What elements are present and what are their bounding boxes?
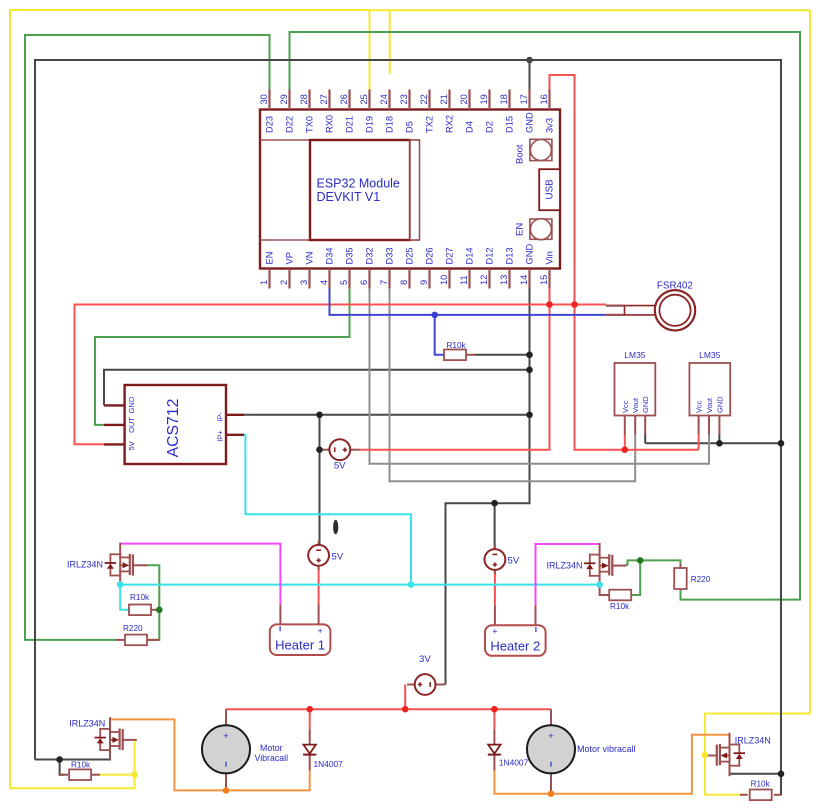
svg-text:+: + — [548, 731, 554, 742]
svg-text:19: 19 — [479, 94, 489, 104]
wire gray ACS IP- rail — [244, 414, 530, 416]
node blue R10k branch junction — [431, 312, 438, 319]
node GND top junction — [526, 57, 533, 64]
FSR402 force sensor — [606, 280, 696, 330]
wire gray LM35-1 GND drop — [644, 435, 646, 444]
ESP32 bottom pin 9 D26 — [419, 247, 434, 288]
node gray IP- junction left — [316, 412, 323, 419]
wire green D35 to ACS712 OUT — [95, 289, 350, 425]
svg-text:+: + — [492, 627, 497, 637]
svg-text:IP-: IP- — [216, 412, 225, 422]
wire red diode 1 drop — [309, 709, 311, 729]
resistor R1 R10k — [444, 341, 467, 360]
svg-text:22: 22 — [419, 94, 429, 104]
svg-text:5V: 5V — [334, 461, 346, 472]
voltage source 5V V3 heater2 — [485, 545, 506, 574]
ESP32 bottom pin 6 D32 — [359, 247, 374, 288]
wire blue branch to R10k mid — [435, 315, 445, 355]
svg-text:R10k: R10k — [610, 602, 630, 611]
motor M2 — [527, 709, 575, 791]
node red diode2 junction — [491, 706, 498, 713]
ESP32 top pin 24 D18 — [379, 90, 394, 134]
svg-text:LM35: LM35 — [699, 350, 721, 360]
svg-text:FSR402: FSR402 — [657, 280, 693, 291]
svg-text:5V: 5V — [332, 551, 344, 562]
ACS712 pin 5V — [104, 441, 136, 450]
svg-text:Vibracall: Vibracall — [255, 753, 289, 763]
svg-text:GND: GND — [641, 396, 650, 413]
svg-text:4: 4 — [319, 280, 329, 285]
svg-text:20: 20 — [459, 94, 469, 104]
ESP32 top pin 20 D4 — [459, 90, 474, 134]
svg-text:2: 2 — [279, 280, 289, 285]
node cyan IP+ junction — [408, 581, 415, 588]
ESP32 top pin 18 D15 — [499, 90, 514, 134]
svg-text:D13: D13 — [504, 247, 514, 264]
svg-text:GND: GND — [127, 396, 136, 413]
svg-text:D21: D21 — [344, 116, 354, 133]
ESP32 bottom pin 10 D27 — [439, 247, 454, 288]
heater HTR2 — [485, 606, 546, 656]
ESP32 Boot button — [515, 139, 552, 164]
ESP32 bottom pin 15 Vin — [539, 251, 554, 288]
wire gray source line bottom-right — [730, 773, 782, 775]
svg-text:5V: 5V — [127, 441, 136, 450]
svg-text:9: 9 — [419, 280, 429, 285]
node gray R10k/GND junction — [526, 352, 533, 359]
wire yellow right border to bottom-right gate — [370, 9, 811, 11]
wire gray branch to 5V source heater2 — [494, 503, 496, 549]
svg-text:D23: D23 — [264, 116, 274, 133]
svg-text:25: 25 — [359, 94, 369, 104]
svg-text:D19: D19 — [364, 116, 374, 133]
svg-text:16: 16 — [539, 94, 549, 104]
svg-text:3V: 3V — [419, 654, 431, 665]
wire yellow dangling stub near D18 — [389, 10, 391, 74]
node green gate junction left — [156, 607, 163, 614]
svg-text:R10k: R10k — [130, 593, 150, 602]
transistor Q2 mid-right IRLZ34N — [585, 544, 625, 585]
LM35 temperature sensor TEMP1 — [615, 350, 656, 435]
svg-text:21: 21 — [439, 94, 449, 104]
wire gray LM35 GND rail — [645, 442, 781, 444]
node green gate junction right — [637, 557, 644, 564]
wire gray GND top border — [529, 60, 531, 90]
svg-text:RX0: RX0 — [324, 115, 334, 133]
svg-text:D33: D33 — [384, 247, 394, 264]
svg-text:Vout: Vout — [631, 397, 640, 413]
voltage source 3V V4 motors — [407, 674, 445, 695]
resistor R10k bottom-right leads — [740, 794, 748, 796]
svg-text:1: 1 — [259, 280, 269, 285]
wire magenta Heater2 to drain — [536, 544, 600, 606]
ESP32 DEVKIT module U1 — [260, 110, 560, 269]
node gray IP- junction right — [526, 412, 533, 419]
resistor R4 R10k — [609, 590, 631, 611]
node cyan source junction left — [117, 581, 124, 588]
svg-text:Vcc: Vcc — [695, 400, 704, 413]
ESP32 bottom pin 3 VN — [299, 252, 314, 289]
wire red 3v3 hook to LM35 Vcc rail — [550, 75, 699, 450]
svg-text:7: 7 — [379, 280, 389, 285]
wire cyan source rail — [120, 584, 599, 586]
svg-text:OUT: OUT — [127, 417, 136, 433]
svg-text:GND: GND — [524, 244, 534, 265]
diode D1 1N4007 — [303, 730, 316, 771]
svg-text:IP+: IP+ — [216, 430, 225, 442]
svg-text:D25: D25 — [404, 247, 414, 264]
svg-text:+: + — [317, 626, 322, 636]
svg-text:VP: VP — [284, 252, 294, 264]
svg-text:R10k: R10k — [751, 779, 771, 788]
svg-text:RX2: RX2 — [444, 115, 454, 133]
ESP32 USB connector — [539, 169, 560, 210]
svg-text:11: 11 — [459, 275, 469, 285]
node gray bottom-right source junction — [778, 771, 785, 778]
ESP32 top pin 25 D19 — [359, 90, 374, 134]
svg-text:D35: D35 — [344, 247, 354, 264]
svg-text:14: 14 — [519, 275, 529, 285]
wire cyan IP+ branch — [244, 435, 411, 585]
node gray heater2 5V junction — [491, 500, 498, 507]
svg-text:D12: D12 — [484, 247, 494, 264]
wire gray ACS GND rail — [104, 370, 530, 406]
wire red LM35-1 Vcc drop — [624, 435, 626, 450]
ESP32 bottom pin 13 D13 — [499, 247, 514, 288]
node red diode1 junction — [306, 706, 313, 713]
svg-text:ESP32 Module: ESP32 Module — [317, 177, 400, 191]
svg-text:VN: VN — [304, 252, 314, 265]
node gray 5V source junction — [316, 446, 323, 453]
ESP32 bottom pin 12 D12 — [479, 247, 494, 288]
svg-text:LM35: LM35 — [624, 350, 646, 360]
svg-text:D15: D15 — [504, 116, 514, 133]
node gray border GND junction — [778, 440, 785, 447]
svg-text:D22: D22 — [284, 116, 294, 133]
svg-text:27: 27 — [319, 94, 329, 104]
wire red diode 2 drop — [493, 709, 495, 729]
svg-text:Vcc: Vcc — [621, 400, 630, 413]
svg-text:R220: R220 — [691, 575, 711, 584]
resistor R220 gate series right leads — [680, 563, 682, 568]
svg-text:GND: GND — [715, 396, 724, 413]
svg-text:TX0: TX0 — [304, 116, 314, 133]
ESP32 bottom pin 2 VP — [279, 252, 294, 288]
svg-text:26: 26 — [339, 94, 349, 104]
wire green D22 gate net right border — [290, 32, 801, 600]
wire red LM35-2 Vcc drop — [698, 435, 700, 450]
node red 3V source junction — [402, 706, 409, 713]
ESP32 bottom pin 14 GND — [519, 244, 534, 289]
svg-text:R10k: R10k — [447, 341, 467, 350]
svg-text:12: 12 — [479, 275, 489, 285]
svg-text:Motor vibracall: Motor vibracall — [577, 744, 636, 754]
wire blue D34 to FSR and R10k — [330, 289, 606, 315]
ESP32 EN button — [515, 219, 552, 240]
ESP32 bottom pin 8 D25 — [399, 247, 414, 288]
svg-text:D5: D5 — [404, 121, 414, 133]
ESP32 bottom pin 5 D35 — [339, 247, 354, 288]
resistor R5 R220 — [674, 568, 711, 589]
wire yellow right border down — [705, 10, 810, 795]
wire gray R10k drop bottom-left — [60, 760, 65, 775]
svg-text:D4: D4 — [464, 121, 474, 133]
wire yellow R10k link bottom-left — [100, 774, 135, 776]
wire red supply rail to FSR and ACS 5V — [75, 305, 607, 445]
wire green gate/R220 link mid-right — [625, 560, 680, 568]
wire gray R10k mid to GND — [475, 354, 530, 356]
ESP32 top pin 22 TX2 — [419, 90, 434, 134]
transistor Q4 bottom-right IRLZ34N — [704, 734, 744, 775]
resistor R6 R10k — [69, 761, 91, 780]
wire gray LM35-2 GND drop — [718, 435, 720, 444]
ESP32 top pin 19 D2 — [479, 90, 494, 134]
node orange motor1 junction — [223, 787, 230, 794]
wire red motor supply rail — [226, 708, 551, 710]
diode D2 1N4007 — [488, 730, 501, 771]
ESP32 top pin 30 D23 — [259, 90, 274, 134]
svg-text:IRLZ34N: IRLZ34N — [69, 718, 105, 728]
svg-text:IRLZ34N: IRLZ34N — [546, 561, 582, 571]
svg-text:8: 8 — [399, 280, 409, 285]
node cyan source junction right — [596, 581, 603, 588]
svg-text:23: 23 — [399, 94, 409, 104]
svg-text:+: + — [223, 731, 229, 742]
wire cyan drop to R10k mid-left — [120, 585, 129, 610]
wire red 5V to Heater 1 — [318, 566, 320, 605]
svg-text:D34: D34 — [324, 247, 334, 264]
ESP32 top pin 16 3v3 — [539, 90, 554, 134]
wire magenta Heater1 to drain — [120, 544, 280, 605]
node gray LM35-2 GND junction — [716, 440, 723, 447]
svg-text:Heater 1: Heater 1 — [275, 638, 325, 653]
svg-text:5: 5 — [339, 280, 349, 285]
ACS712 pin OUT — [104, 417, 136, 433]
wire green D23 gate net left border — [25, 35, 270, 640]
svg-text:15: 15 — [539, 275, 549, 285]
resistor R2 R10k — [129, 593, 151, 615]
svg-text:EN: EN — [264, 252, 274, 265]
ESP32 bottom pin 1 EN — [259, 252, 274, 289]
ESP32 top pin 21 RX2 — [439, 90, 454, 134]
svg-text:6: 6 — [359, 280, 369, 285]
svg-text:ACS712: ACS712 — [165, 399, 182, 458]
resistor R10k gate pulldown right leads — [600, 585, 610, 595]
resistor R3 R220 — [123, 624, 147, 645]
svg-text:10: 10 — [439, 275, 449, 285]
svg-text:5V: 5V — [508, 556, 520, 567]
resistor R10k bottom-left leads — [60, 774, 69, 776]
svg-text:17: 17 — [519, 94, 529, 104]
ACS712 current sensor U2 — [125, 385, 226, 464]
wire gray D32 to LM35-2 Vout — [370, 289, 710, 464]
wire orange motor2 loop — [494, 735, 729, 794]
svg-text:IRLZ34N: IRLZ34N — [735, 736, 771, 746]
node red Vin/rail junction — [546, 301, 553, 308]
wire gray D33 to LM35-1 Vout — [390, 289, 636, 482]
svg-text:D26: D26 — [424, 247, 434, 264]
wire red Vin down to 5V source — [360, 289, 550, 450]
wire gray gate line bottom-left — [35, 759, 110, 761]
resistor R10k FSR pulldown leads — [444, 354, 446, 356]
node yellow gate junction bottom-left — [131, 771, 138, 778]
svg-text:13: 13 — [499, 275, 509, 285]
svg-text:3: 3 — [299, 280, 309, 285]
node yellow gate junction bottom-right — [702, 752, 709, 759]
svg-text:24: 24 — [379, 94, 389, 104]
svg-text:D14: D14 — [464, 247, 474, 264]
ESP32 top pin 23 D5 — [399, 90, 414, 134]
svg-text:Boot: Boot — [515, 144, 526, 164]
ACS712 pin IP- — [216, 412, 245, 422]
svg-text:Vout: Vout — [705, 397, 714, 413]
svg-text:1N4007: 1N4007 — [314, 759, 344, 769]
resistor R7 R10k — [750, 779, 772, 800]
wire red 3V source drop — [404, 685, 406, 710]
wire gray IP- to 5V sources — [319, 415, 321, 545]
small dark ellipse marker above 5V source — [333, 520, 338, 535]
svg-text:Motor: Motor — [260, 743, 283, 753]
svg-text:D2: D2 — [484, 121, 494, 133]
svg-text:GND: GND — [524, 112, 534, 133]
svg-text:R10k: R10k — [71, 761, 91, 770]
LM35 temperature sensor TEMP2 — [689, 350, 730, 435]
svg-text:DEVKIT V1: DEVKIT V1 — [317, 190, 381, 204]
voltage source 5V V1 — [320, 439, 360, 460]
svg-text:D18: D18 — [384, 116, 394, 133]
svg-text:28: 28 — [299, 94, 309, 104]
ESP32 top pin 29 D22 — [279, 90, 294, 134]
wire green branch to R10k mid-right — [631, 560, 640, 595]
ESP32 top pin 27 RX0 — [319, 90, 334, 134]
svg-text:TX2: TX2 — [424, 116, 434, 133]
transistor Q1 mid-left IRLZ34N — [106, 544, 146, 585]
svg-text:18: 18 — [499, 94, 509, 104]
svg-text:3v3: 3v3 — [544, 118, 554, 133]
svg-text:D27: D27 — [444, 247, 454, 264]
ESP32 bottom pin 4 D34 — [319, 247, 334, 288]
node orange motor2 junction — [548, 790, 555, 797]
node red LM35-1 Vcc junction — [622, 446, 629, 453]
svg-text:USB: USB — [545, 179, 556, 200]
ESP32 bottom pin 7 D33 — [379, 247, 394, 288]
svg-text:D32: D32 — [364, 247, 374, 264]
svg-text:EN: EN — [515, 223, 526, 236]
svg-text:Vin: Vin — [544, 251, 554, 264]
wire yellow D19 net top+left border — [10, 10, 370, 788]
voltage source 5V V2 heater1 — [308, 541, 329, 570]
ESP32 top pin 17 GND — [519, 90, 534, 134]
ACS712 pin IP+ — [216, 430, 245, 442]
svg-text:29: 29 — [279, 94, 289, 104]
label M1 Motor Vibracall — [255, 743, 289, 763]
wire green gate/R10k/R220 link mid-left — [144, 565, 159, 640]
ACS712 pin GND — [104, 396, 136, 413]
svg-text:Heater 2: Heater 2 — [490, 638, 540, 653]
motor M1 — [202, 709, 250, 791]
svg-text:IRLZ34N: IRLZ34N — [67, 559, 103, 569]
wire orange motor1 loop — [110, 719, 310, 790]
node red 3v3/rail junction — [571, 301, 578, 308]
heater HTR1 — [270, 605, 331, 655]
svg-text:1N4007: 1N4007 — [499, 758, 529, 768]
ESP32 top pin 28 TX0 — [299, 90, 314, 134]
resistor R10k gate pulldown left leads — [151, 609, 159, 611]
ESP32 bottom pin 11 D14 — [459, 247, 474, 288]
node gray ACS-GND rail junction — [526, 367, 533, 374]
svg-text:30: 30 — [259, 94, 269, 104]
wire gray D13-GND pin14 down — [446, 289, 530, 685]
ESP32 top pin 26 D21 — [339, 90, 354, 134]
resistor R220 gate series left leads — [115, 639, 125, 641]
svg-text:R220: R220 — [123, 624, 143, 633]
wire red 5V to Heater 2 — [494, 570, 496, 606]
node gray bottom-left gate junction — [56, 756, 63, 763]
transistor Q3 bottom-left IRLZ34N — [95, 718, 135, 759]
